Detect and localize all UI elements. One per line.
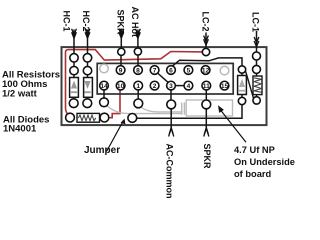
svg-text:AC Hot: AC Hot [130, 7, 140, 38]
hole row B2 [100, 113, 109, 122]
svg-text:14: 14 [100, 83, 108, 90]
pin 6 [167, 66, 176, 75]
svg-text:LC-1: LC-1 [250, 12, 260, 32]
arrow LC-1 [254, 37, 259, 47]
capacitor C1 body [186, 100, 232, 116]
hole row B3 [128, 114, 137, 123]
svg-text:5: 5 [187, 67, 191, 74]
arrow HC-1 [72, 29, 77, 39]
svg-text:9: 9 [119, 67, 123, 74]
pin 3 [167, 81, 176, 90]
pin 12 [201, 66, 210, 75]
hole D3 bottom [238, 97, 245, 104]
svg-text:12: 12 [202, 67, 210, 74]
wire SPKR bottom drop [205, 109, 207, 129]
board outline [62, 47, 267, 125]
wire D3 top to R3 bottom diagonal [246, 72, 254, 99]
pin 7 [150, 66, 159, 75]
hole D3 top [238, 66, 245, 73]
svg-text:1N4001: 1N4001 [3, 124, 37, 135]
hole LC-2 [202, 48, 209, 55]
wire long bottom to D3 [137, 105, 242, 119]
svg-text:of board: of board [234, 169, 272, 179]
hole row A6 SPKR [202, 100, 211, 109]
wire HC-2 drop [87, 30, 89, 68]
wire pin3 to pin4 [175, 85, 184, 87]
wire pin1 down [137, 90, 139, 99]
svg-text:3: 3 [169, 83, 173, 90]
pin 4 [184, 81, 193, 90]
wire pin3 down [170, 90, 172, 100]
svg-text:4: 4 [187, 83, 191, 90]
pin 8 [134, 66, 143, 75]
hole R3 bottom [253, 97, 260, 104]
svg-text:7: 7 [153, 67, 157, 74]
svg-text:15: 15 [221, 83, 229, 90]
hole row B1 [66, 113, 75, 122]
wire pin6 to D3 top [172, 58, 243, 67]
pad blank left [100, 64, 109, 73]
hole row A3 below pin14 [100, 98, 109, 107]
svg-text:6: 6 [169, 67, 173, 74]
hole row A1 [69, 99, 78, 108]
arrow SPKR bottom up [204, 128, 209, 137]
svg-text:HC-2: HC-2 [81, 11, 91, 32]
arrow AC Hot [136, 29, 141, 39]
svg-text:LC-2: LC-2 [201, 12, 211, 32]
arrow HC-2 [85, 29, 90, 39]
hole row A5 AC-Common [167, 100, 176, 109]
svg-text:4.7 Uf NP: 4.7 Uf NP [234, 145, 275, 155]
wire LC-2 shaft [205, 33, 207, 49]
svg-text:SPKR: SPKR [116, 10, 126, 36]
diode D1 body [70, 78, 79, 98]
wire diode D1 leads [73, 75, 75, 99]
arrow Jumper [107, 121, 124, 152]
svg-text:10: 10 [117, 83, 125, 90]
hole AC-Hot top [134, 48, 141, 55]
arrow SPKR top [119, 29, 124, 39]
svg-text:On Underside: On Underside [234, 157, 295, 167]
diode D3 body [238, 76, 247, 95]
arrow LC-2 [204, 36, 209, 46]
hole row A4 below pin1 [134, 99, 143, 108]
svg-text:8: 8 [136, 67, 140, 74]
resistor R1 body horizontal [77, 113, 100, 122]
svg-text:SPKR: SPKR [202, 144, 212, 170]
wire AC-Common drop [170, 109, 172, 129]
hole row A2 [83, 99, 92, 108]
wire pin14 down [103, 90, 105, 98]
pin 14 [100, 81, 109, 90]
wire SPKR top drop to pin 9 [120, 30, 122, 67]
arrow capacitor callout [221, 110, 247, 142]
wire AC-Hot drop to pin 8 [137, 30, 139, 67]
wire red trace AC-hot top [66, 50, 203, 116]
wire pin11 down [205, 90, 207, 100]
svg-text:11: 11 [203, 83, 210, 90]
diode D2 body [84, 78, 93, 98]
hole LC-1 a [253, 52, 261, 60]
svg-text:1/2 watt: 1/2 watt [2, 88, 38, 99]
pin 15 [220, 81, 229, 90]
pin 5 [184, 66, 193, 75]
hole HC-1 a [70, 54, 78, 62]
pin 9 [116, 66, 125, 75]
wire red jumper from pin10 [110, 90, 120, 118]
svg-text:2: 2 [153, 83, 157, 90]
pad blank right [220, 66, 229, 75]
hole LC-1 b [253, 65, 261, 73]
hole SPKR top [118, 48, 125, 55]
capacitor C1 4.7uF gray lead 1 [107, 105, 182, 113]
wire diode D2 leads [87, 75, 89, 99]
wire pin7 to pin3 [158, 73, 169, 82]
pin 11 [202, 81, 211, 90]
capacitor C1 gray lead 2 [141, 107, 181, 112]
wire LC-1 shaft and link [256, 31, 258, 97]
pin 2 [150, 81, 159, 90]
hole HC-1 b [70, 66, 78, 74]
hole HC-2 b [83, 66, 91, 74]
svg-text:1: 1 [136, 83, 140, 90]
svg-text:AC-Common: AC-Common [165, 144, 175, 199]
capacitor C1 plates [182, 103, 185, 115]
resistor R3 body vertical [253, 76, 262, 95]
wire diode D3 leads [241, 73, 243, 97]
pin 10 [116, 81, 125, 90]
svg-text:Jumper: Jumper [84, 145, 120, 156]
arrow AC-Common up [169, 128, 174, 137]
hole HC-2 a [83, 54, 91, 62]
wire HC-1 drop [73, 30, 75, 68]
svg-text:HC-1: HC-1 [62, 11, 72, 32]
pin 1 [134, 81, 143, 90]
IC socket U1 outline [97, 63, 233, 94]
